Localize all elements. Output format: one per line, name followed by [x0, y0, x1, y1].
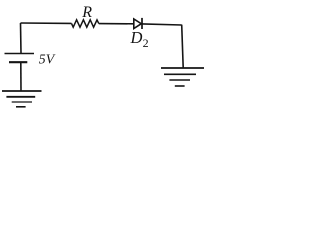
svg-text:2: 2 [143, 36, 149, 50]
ground left [2, 91, 42, 107]
resistor R [72, 20, 99, 27]
wire battery to left ground [20, 62, 22, 91]
diode D2 cathode bar [141, 18, 143, 29]
battery (5V source) bottom plate, short/negative [9, 61, 27, 63]
battery (5V source) top plate, long/positive [5, 53, 35, 55]
ground right [161, 68, 204, 86]
svg-text:D: D [130, 28, 143, 47]
svg-text:R: R [81, 4, 92, 21]
wire top-left horizontal from corner to resistor [21, 22, 72, 24]
wire resistor to diode [99, 23, 134, 25]
wire diode to top-right corner [142, 24, 181, 25]
wire left vertical from top corner down to battery [20, 23, 23, 54]
svg-text:5V: 5V [39, 52, 56, 67]
wire right vertical down to ground [182, 25, 184, 68]
diode D2 triangle [134, 19, 142, 29]
